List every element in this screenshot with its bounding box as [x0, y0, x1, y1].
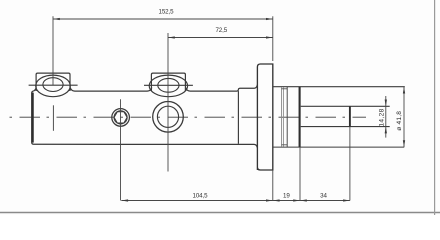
- snout face extension line: [299, 147, 301, 200]
- bore end face: [349, 106, 351, 126]
- port boss P2: [151, 73, 185, 91]
- port boss P1: [36, 73, 70, 91]
- snout end face (thick): [299, 87, 301, 147]
- port P1 inner ellipse: [43, 78, 63, 92]
- snout top line (ø41.8): [274, 86, 405, 88]
- dimension 14,28 (vertical): [385, 96, 387, 138]
- frame border right: [434, 0, 436, 215]
- flange face extension line top: [272, 16, 274, 61]
- dimension 72,5: [168, 36, 273, 38]
- flange: [257, 64, 272, 170]
- port P1 outer ellipse: [36, 75, 71, 97]
- main centerline: [10, 116, 367, 118]
- svg-text:104,5: 104,5: [193, 193, 209, 200]
- bore top line (ø14.28): [301, 105, 390, 107]
- port P1 axis segment: [52, 105, 54, 131]
- svg-text:152,5: 152,5: [159, 8, 175, 15]
- port P2 axis / extension line: [167, 33, 169, 172]
- groove notch bottom: [282, 144, 288, 146]
- port P2 seat line: [144, 84, 193, 86]
- body outline: [32, 85, 258, 148]
- plug circle outer: [112, 109, 130, 127]
- svg-text:14,28: 14,28: [379, 108, 386, 126]
- svg-text:34: 34: [320, 193, 327, 200]
- svg-text:72,5: 72,5: [215, 27, 227, 34]
- dimension 152,5: [53, 18, 273, 20]
- port P2 outer ellipse: [149, 75, 187, 97]
- body right end face: [237, 91, 239, 144]
- outlet boss circle outer: [153, 102, 184, 133]
- dimension ø41,8 (vertical): [403, 87, 405, 147]
- frame border bottom: [0, 212, 440, 214]
- svg-text:19: 19: [283, 193, 290, 200]
- svg-text:ø 41,8: ø 41,8: [396, 111, 403, 131]
- bore end extension line: [349, 127, 351, 201]
- plug axis / extension line: [120, 99, 122, 200]
- plug hex socket: [114, 112, 127, 123]
- flange face extension line bottom: [272, 170, 274, 201]
- plug circle inner: [114, 111, 127, 124]
- body left end face (thick): [32, 93, 34, 143]
- snout bottom line (ø41.8): [274, 146, 405, 148]
- snout groove line b: [282, 87, 284, 147]
- bore bottom line (ø14.28): [301, 126, 390, 128]
- groove notch top: [282, 88, 288, 90]
- snout groove line c: [286, 87, 288, 147]
- port P1 extension line: [52, 16, 54, 85]
- port P1 seat line: [29, 84, 78, 86]
- dimension chain 104,5 / 19 / 34: [121, 199, 350, 201]
- port P2 inner ellipse: [158, 78, 179, 92]
- snout groove line a: [281, 87, 283, 147]
- outlet boss circle inner: [157, 106, 178, 127]
